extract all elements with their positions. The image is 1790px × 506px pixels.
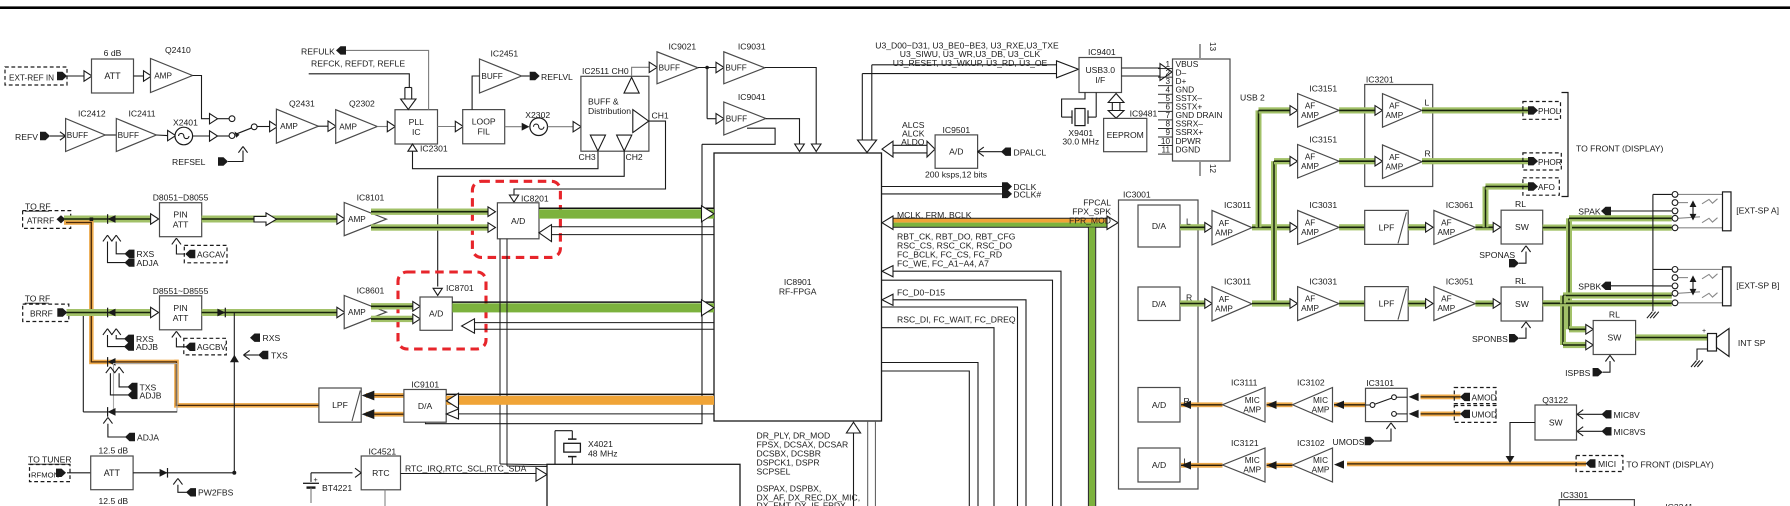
amplifier IC3011 L xyxy=(1212,210,1252,245)
wire CH0 to IC9021 xyxy=(632,67,649,76)
jack contact lines EXT-SP B xyxy=(1653,268,1672,270)
wire IC3031 to LPF L xyxy=(1339,224,1365,230)
junction after IC9021 xyxy=(698,67,716,69)
svg-text:IC3111: IC3111 xyxy=(1231,377,1258,387)
wire Q3122 to MICI line xyxy=(1510,423,1535,457)
svg-text:REFCK, REFDT, REFLE: REFCK, REFDT, REFLE xyxy=(311,59,405,69)
svg-text:IC8701: IC8701 xyxy=(446,283,474,293)
RTC IC4521 xyxy=(361,456,400,490)
buffer arrow into PIN ATT 2 xyxy=(151,307,159,317)
buffer arrow on wire xyxy=(84,71,92,81)
wire REFULK from PLL xyxy=(346,50,429,109)
svg-text:INT SP: INT SP xyxy=(1738,338,1766,348)
svg-text:REFV: REFV xyxy=(15,132,38,142)
wire IC9031 to FPGA xyxy=(765,68,816,144)
buffer IC9041 xyxy=(716,114,724,124)
svg-text:SPONBS: SPONBS xyxy=(1472,334,1508,344)
svg-text:AMP: AMP xyxy=(1437,228,1455,237)
svg-text:A/D: A/D xyxy=(949,147,963,157)
svg-text:IC3031: IC3031 xyxy=(1309,200,1337,210)
control AGCAV xyxy=(172,238,177,244)
svg-text:X2302: X2302 xyxy=(525,110,550,120)
wire PIN ATT2 to IC8601 xyxy=(202,309,337,316)
crystal X2401 xyxy=(175,127,193,145)
buffer arrow into IC8601 xyxy=(337,307,345,317)
input MIC8V xyxy=(1577,410,1583,415)
jack common wire xyxy=(1652,194,1654,311)
wire bus line 6 xyxy=(882,363,979,506)
wire RTC bottom xyxy=(384,490,386,506)
svg-text:ADJB: ADJB xyxy=(136,342,158,352)
amplifier IC3151 R xyxy=(1298,145,1340,179)
wire IC3151 to IC3201 L xyxy=(1339,107,1375,113)
diode on RFMON wire xyxy=(160,469,168,477)
svg-text:TO FRONT (DISPLAY): TO FRONT (DISPLAY) xyxy=(1626,459,1714,469)
svg-text:MIC8VS: MIC8VS xyxy=(1614,427,1646,437)
attenuator ATT 12.5dB xyxy=(91,456,133,490)
svg-text:LOOP: LOOP xyxy=(472,117,496,127)
speaker INT SP xyxy=(1708,334,1717,352)
wires FPGA bottom pair xyxy=(867,421,869,506)
buffer IC9031 xyxy=(716,62,724,72)
svg-text:FIL: FIL xyxy=(477,127,490,137)
svg-text:ADJA: ADJA xyxy=(137,258,159,268)
buffer distribution IC2511 xyxy=(581,76,649,151)
svg-text:IC2301: IC2301 xyxy=(420,143,448,153)
buffer IC2411 xyxy=(116,119,156,152)
headphone amp IC3201 xyxy=(1365,85,1433,187)
switch lever REFSEL xyxy=(235,132,240,138)
wire IC3102 to IC3111 xyxy=(1267,402,1293,407)
codec IC3001 xyxy=(1119,200,1199,489)
buffer IC2451 xyxy=(480,59,522,93)
svg-text:BUFF: BUFF xyxy=(118,131,139,140)
svg-text:USB3.0: USB3.0 xyxy=(1085,65,1115,75)
svg-text:AGCAV: AGCAV xyxy=(197,250,226,260)
svg-text:AF: AF xyxy=(1305,152,1315,161)
svg-text:IC3001: IC3001 xyxy=(1123,189,1151,199)
svg-text:IC8601: IC8601 xyxy=(357,285,385,295)
svg-text:IC3011: IC3011 xyxy=(1224,200,1251,210)
clock triangle IC8201 xyxy=(509,195,518,202)
wire LPF to IC3061 xyxy=(1408,224,1425,230)
svg-text:IC8101: IC8101 xyxy=(357,192,385,202)
diode on RX1 wire xyxy=(108,215,116,223)
wire IC3101 to IC3102 xyxy=(1334,402,1366,407)
svg-text:LPF: LPF xyxy=(332,400,348,410)
svg-text:SPBK: SPBK xyxy=(1578,282,1601,292)
wire DA to LPF 1 xyxy=(366,393,404,398)
memory EEPROM IC9481 xyxy=(1104,118,1147,151)
diode on RX2 wire xyxy=(108,309,116,317)
svg-text:TXS: TXS xyxy=(271,350,288,360)
svg-text:AMP: AMP xyxy=(348,215,366,224)
wire DA-R to IC3011 R xyxy=(1180,300,1205,306)
svg-text:SW: SW xyxy=(1515,299,1530,309)
bus arrow into PLL top xyxy=(404,88,406,100)
svg-text:SPAK: SPAK xyxy=(1578,207,1601,217)
svg-text:IC3201: IC3201 xyxy=(1366,74,1394,84)
svg-text:D8551~D8555: D8551~D8555 xyxy=(153,286,209,296)
svg-text:AF: AF xyxy=(1219,219,1229,228)
svg-text:ADJB: ADJB xyxy=(140,390,162,400)
headphone riser A xyxy=(1256,110,1262,227)
svg-text:AMP: AMP xyxy=(1301,162,1319,171)
svg-text:AMP: AMP xyxy=(1312,405,1330,414)
wire switch to Q2431 xyxy=(257,126,269,128)
wire IC3011 to IC3031 L xyxy=(1252,224,1290,230)
wire SW B to jack B xyxy=(1543,300,1672,306)
svg-text:PW2FBS: PW2FBS xyxy=(198,488,234,498)
taps TXS ADJB on TX wire xyxy=(106,367,111,373)
wire Q2431 to Q2302 xyxy=(318,125,327,127)
svg-text:PIN: PIN xyxy=(173,210,187,220)
diode direction on wire xyxy=(217,309,225,317)
diode on branch wire xyxy=(108,408,116,416)
channel CH1 triangle xyxy=(633,110,649,133)
wires IC8101 to IC8201 xyxy=(371,209,488,215)
output PHOL xyxy=(1523,102,1561,120)
svg-text:IC3102: IC3102 xyxy=(1297,377,1325,387)
svg-text:MIC: MIC xyxy=(1245,396,1260,405)
svg-text:RXS: RXS xyxy=(263,333,281,343)
wire battery to RTC xyxy=(311,472,353,474)
battery BT4221 xyxy=(310,473,312,482)
svg-text:IC8201: IC8201 xyxy=(521,193,549,203)
svg-text:RTC: RTC xyxy=(372,468,390,478)
wire BRRF branch down xyxy=(82,313,84,412)
svg-text:AF: AF xyxy=(1305,295,1315,304)
svg-text:IC2412: IC2412 xyxy=(78,109,106,119)
svg-text:DX_FMT, DX_IF, FPDX,: DX_FMT, DX_IF, FPDX, xyxy=(757,501,849,506)
svg-text:Distribution: Distribution xyxy=(588,106,631,116)
headphone riser B xyxy=(1271,161,1277,303)
connector EXT-REF IN xyxy=(5,67,67,85)
wire bus line 4 xyxy=(882,307,1018,506)
wire MICI bus xyxy=(1347,462,1586,467)
wire LOOP FIL to X2302 xyxy=(505,126,522,128)
ADC IC8701 xyxy=(420,297,452,330)
svg-text:AMP: AMP xyxy=(339,122,357,131)
svg-text:PIN: PIN xyxy=(173,303,187,313)
switch SW C RL xyxy=(1593,321,1635,355)
svg-text:BRRF: BRRF xyxy=(30,309,53,319)
wire IC3061 to SW A xyxy=(1475,224,1493,230)
svg-text:D8051~D8055: D8051~D8055 xyxy=(153,193,209,203)
svg-text:R: R xyxy=(1425,149,1431,159)
mic amplifier IC3102 lower xyxy=(1293,448,1333,482)
wire IC9041 to FPGA xyxy=(766,119,800,144)
svg-text:AF: AF xyxy=(1389,102,1399,111)
svg-text:IC3151: IC3151 xyxy=(1309,134,1337,144)
taps RXS ADJB below RX2 xyxy=(103,329,108,335)
switch upper contact circle xyxy=(218,118,230,120)
wire X2401 to switch xyxy=(193,135,209,137)
wire riser to IC3151 L xyxy=(1259,107,1290,113)
output DCLK xyxy=(882,186,1003,188)
svg-text:IC3151: IC3151 xyxy=(1309,83,1337,93)
wire bus line 7 xyxy=(882,371,970,506)
svg-text:IC2451: IC2451 xyxy=(491,49,519,59)
switch SW A RL xyxy=(1501,210,1543,244)
connector MICI xyxy=(1576,456,1623,472)
wire Q2410 output xyxy=(193,76,210,119)
svg-text:R: R xyxy=(1186,293,1192,303)
svg-text:+: + xyxy=(314,475,318,484)
svg-text:30.0 MHz: 30.0 MHz xyxy=(1062,137,1099,147)
lowpass filter LPF L xyxy=(1365,210,1409,244)
crystal X2302 xyxy=(530,118,548,136)
svg-text:ATT: ATT xyxy=(173,313,189,323)
svg-text:BUFF: BUFF xyxy=(67,131,88,140)
svg-text:PHOL: PHOL xyxy=(1538,107,1561,116)
PLL IC2301 xyxy=(395,110,438,144)
signal TXS right xyxy=(244,350,250,355)
wire SW A to jack A xyxy=(1543,225,1672,231)
jack B switched feed xyxy=(1563,292,1672,298)
svg-text:LPF: LPF xyxy=(1379,299,1395,309)
svg-text:12.5 dB: 12.5 dB xyxy=(99,496,129,506)
jack plunger arrow EXT-SP A xyxy=(1692,206,1694,215)
buffer IC2412 xyxy=(66,119,106,152)
bus DSP to FPGA bottom xyxy=(853,433,855,506)
svg-text:SW: SW xyxy=(1515,222,1530,232)
svg-text:IC3101: IC3101 xyxy=(1366,378,1394,388)
amplifier Q2302 xyxy=(336,110,378,144)
svg-text:ADJA: ADJA xyxy=(137,432,159,442)
bus IC8201 to FPGA green xyxy=(539,209,714,218)
svg-text:RTC_IRQ,RTC_SCL,RTC_SDA: RTC_IRQ,RTC_SCL,RTC_SDA xyxy=(405,463,527,473)
svg-text:MIC: MIC xyxy=(1313,456,1328,465)
svg-text:FC_WE, FC_A1~A4, A7: FC_WE, FC_A1~A4, A7 xyxy=(897,258,989,268)
taps RXS ADJA below RX1 xyxy=(103,235,108,241)
svg-text:RL: RL xyxy=(1515,276,1526,286)
svg-text:MICI: MICI xyxy=(1598,459,1616,469)
wire ATT to Q2410 xyxy=(134,75,144,77)
svg-text:AGCBV: AGCBV xyxy=(197,342,227,352)
wire X2302 to BUFF and Distribution xyxy=(548,126,573,128)
speaker ground xyxy=(1697,349,1708,360)
input DPALCL xyxy=(978,147,984,152)
svg-text:IC9021: IC9021 xyxy=(669,42,697,52)
wire riser to IC3151 R xyxy=(1274,158,1290,164)
svg-text:AMP: AMP xyxy=(348,308,366,317)
tap ADJA lower xyxy=(103,417,108,423)
svg-text:11: 11 xyxy=(1162,145,1171,154)
DAC right channel xyxy=(1138,287,1180,321)
jack circles EXT-SP A xyxy=(1672,192,1678,198)
bus FPGA to IC9101 orange xyxy=(446,396,714,405)
wire IC9041 aux output xyxy=(702,128,775,144)
control lines IC8701 FPGA xyxy=(475,322,715,324)
svg-text:IC2511 CH0: IC2511 CH0 xyxy=(582,66,629,76)
speaker B riser V2 xyxy=(1560,304,1566,346)
svg-text:USB 2: USB 2 xyxy=(1240,93,1265,103)
svg-text:RL: RL xyxy=(1515,199,1526,209)
svg-text:UMOD: UMOD xyxy=(1472,410,1498,420)
attenuator ATT 6dB xyxy=(92,59,134,93)
svg-text:D/A: D/A xyxy=(1152,299,1167,309)
svg-text:IC9031: IC9031 xyxy=(738,42,766,52)
svg-text:AMP: AMP xyxy=(154,71,172,80)
svg-text:ATT: ATT xyxy=(104,468,121,478)
svg-text:MIC8V: MIC8V xyxy=(1614,410,1641,420)
svg-text:IC9101: IC9101 xyxy=(411,379,439,389)
svg-text:BUFF: BUFF xyxy=(726,114,747,123)
svg-text:U3_RESET, U3_WKUP, U3_RD, U3_O: U3_RESET, U3_WKUP, U3_RD, U3_OE xyxy=(893,58,1048,68)
bus FPGA to IC9501 xyxy=(891,144,929,146)
wire EXT-REF IN to ATT xyxy=(67,75,84,77)
svg-text:BUFF: BUFF xyxy=(659,64,680,73)
svg-text:IC3051: IC3051 xyxy=(1446,276,1474,286)
bus USB3.0 to connector xyxy=(1122,67,1161,69)
amplifier IC3031 R xyxy=(1298,287,1340,321)
svg-text:RF-FPGA: RF-FPGA xyxy=(779,287,817,297)
svg-text:IC9401: IC9401 xyxy=(1088,47,1116,57)
svg-text:CH2: CH2 xyxy=(626,152,643,162)
control line FPGA to IC9101 xyxy=(459,413,715,415)
svg-text:A/D: A/D xyxy=(1152,460,1166,470)
svg-text:MIC: MIC xyxy=(1313,396,1328,405)
lowpass filter LPF R xyxy=(1365,287,1409,321)
signal RXS right xyxy=(250,334,260,342)
svg-text:IC3031: IC3031 xyxy=(1309,276,1337,286)
wire CH2 clock to IC8701 xyxy=(438,151,625,286)
channel CH2 triangle xyxy=(617,135,632,151)
svg-text:BUFF &: BUFF & xyxy=(588,97,619,107)
wire IC3031 to LPF R xyxy=(1339,300,1365,306)
svg-text:L: L xyxy=(1425,97,1430,107)
switch SW B RL xyxy=(1501,287,1543,321)
svg-text:REFSEL: REFSEL xyxy=(172,157,206,167)
junction RX TX at ATRRF xyxy=(90,218,94,222)
gray unit box TXS ADJB xyxy=(114,364,178,412)
svg-text:AMP: AMP xyxy=(1385,162,1403,171)
wire PLL to LOOP FIL xyxy=(438,126,456,128)
svg-text:IC4521: IC4521 xyxy=(369,446,397,456)
wire IC2451 input from loop node xyxy=(472,76,479,110)
svg-text:AMP: AMP xyxy=(280,122,298,131)
svg-text:FPR_MOD: FPR_MOD xyxy=(1069,215,1111,225)
svg-text:AMP: AMP xyxy=(1215,304,1233,313)
svg-text:L: L xyxy=(1184,456,1189,466)
buffer arrow into PIN ATT xyxy=(151,214,159,224)
wire CH1 clock xyxy=(514,121,666,194)
svg-text:AF: AF xyxy=(1219,295,1229,304)
svg-text:PHOR: PHOR xyxy=(1538,158,1562,167)
amplifier Q2410 xyxy=(151,59,193,93)
clock input triangle IC2301 xyxy=(408,144,417,151)
jack plunger arrow EXT-SP B xyxy=(1692,281,1694,290)
DAC left channel xyxy=(1138,205,1180,247)
feedback wire CH3 to PLL xyxy=(413,151,599,168)
DAC IC9101 xyxy=(404,390,446,423)
wire DA-L to IC3011 xyxy=(1180,224,1205,230)
speaker B riser V1 xyxy=(1566,218,1572,329)
output AFO xyxy=(1483,187,1489,228)
svg-text:IC3241: IC3241 xyxy=(1665,502,1693,506)
wire PIN ATT to IC8101 xyxy=(202,216,337,223)
svg-text:AMP: AMP xyxy=(1437,304,1455,313)
input MIC8VS xyxy=(1577,427,1583,432)
wire IC3102 to IC3121 xyxy=(1267,463,1293,468)
bus U3 FPGA to USB3.0 xyxy=(872,64,1057,66)
svg-text:13: 13 xyxy=(1208,42,1217,52)
jack contact levers EXT-SP B xyxy=(1702,274,1718,279)
wire ATRRF RX green xyxy=(64,216,150,223)
svg-text:IC3011: IC3011 xyxy=(1224,276,1251,286)
crystal X9401 xyxy=(1062,93,1085,118)
bus USB3.0 to EEPROM xyxy=(1111,101,1113,112)
svg-text:AMP: AMP xyxy=(1301,111,1319,120)
svg-text:RFMON: RFMON xyxy=(31,471,59,480)
svg-text:[EXT-SP A]: [EXT-SP A] xyxy=(1736,205,1779,215)
svg-text:CH1: CH1 xyxy=(652,110,669,120)
svg-text:AMP: AMP xyxy=(1243,405,1261,414)
amplifier IC3031 L xyxy=(1290,223,1297,233)
amplifier IC8101 xyxy=(344,203,386,236)
svg-text:IC9501: IC9501 xyxy=(943,125,971,135)
crystal X4021 xyxy=(555,430,572,432)
output REFLVL xyxy=(522,75,530,77)
amplifier IC3201 upper xyxy=(1383,94,1423,128)
jack body EXT-SP B xyxy=(1723,267,1732,306)
svg-text:REFULK: REFULK xyxy=(301,46,335,56)
svg-text:PLL: PLL xyxy=(409,117,425,127)
junction dot sense line xyxy=(232,471,236,475)
svg-text:REFLVL: REFLVL xyxy=(541,72,573,82)
svg-text:IC9041: IC9041 xyxy=(738,92,766,102)
jack body EXT-SP A xyxy=(1723,192,1732,231)
svg-text:AMP: AMP xyxy=(1312,466,1330,475)
svg-text:AF: AF xyxy=(1305,101,1315,110)
wire IC3151 to IC3201 R xyxy=(1339,158,1375,164)
svg-text:SW: SW xyxy=(1549,418,1564,428)
amplifier Q2431 xyxy=(276,109,318,143)
svg-text:48 MHz: 48 MHz xyxy=(588,449,618,459)
top border line xyxy=(0,6,1790,9)
amplifier IC3051 xyxy=(1434,287,1476,321)
svg-text:TO RF: TO RF xyxy=(25,294,51,304)
svg-text:SCPSEL: SCPSEL xyxy=(757,466,791,476)
wire ATT to sense line xyxy=(133,472,234,474)
svg-text:D/A: D/A xyxy=(1152,221,1167,231)
amplifier IC3011 R xyxy=(1212,287,1252,322)
svg-text:DPALCL: DPALCL xyxy=(1014,148,1047,158)
svg-text:AMP: AMP xyxy=(1301,228,1319,237)
mod select switch IC3101 xyxy=(1366,388,1408,421)
mic amplifier IC3121 xyxy=(1223,448,1266,482)
ADC IC8201 xyxy=(497,203,539,239)
jack circles EXT-SP B xyxy=(1672,267,1678,273)
svg-text:CH3: CH3 xyxy=(579,152,596,162)
ADC IC9501 xyxy=(935,135,978,168)
wire SW C to INT SP xyxy=(1636,334,1708,340)
svg-text:I/F: I/F xyxy=(1095,75,1105,85)
svg-text:EEPROM: EEPROM xyxy=(1107,130,1144,140)
svg-text:UMODS: UMODS xyxy=(1333,437,1365,447)
buffer to switch upper contact xyxy=(210,114,218,124)
wire REFCK bus xyxy=(309,74,410,88)
svg-text:IC8901: IC8901 xyxy=(784,277,812,287)
control AGCBV xyxy=(172,331,177,337)
DSP box xyxy=(547,464,740,506)
highlight box IC8701 xyxy=(398,272,486,349)
USB connector J-USB xyxy=(1173,59,1231,161)
jack contact lines EXT-SP A xyxy=(1653,193,1672,195)
svg-text:MIC: MIC xyxy=(1245,456,1260,465)
mic amplifier IC3111 xyxy=(1223,388,1266,423)
